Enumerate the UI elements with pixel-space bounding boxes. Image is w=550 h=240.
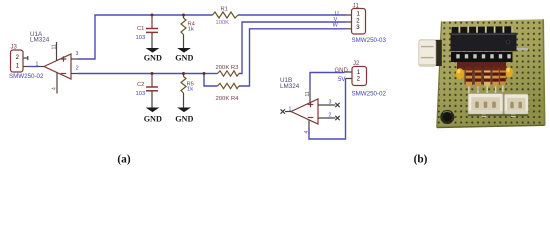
resistor 3 on board (484, 67, 490, 94)
connector J2 (352, 67, 367, 86)
svg-text:(a): (a) (117, 154, 130, 166)
svg-text:103: 103 (136, 91, 146, 97)
svg-text:SMW250-02: SMW250-02 (9, 73, 44, 80)
svg-text:GND: GND (175, 54, 193, 63)
connector shadow on board (468, 114, 528, 116)
J3 pin 2 stub with no-connect tick (23, 56, 28, 60)
capacitor C1 (146, 15, 158, 48)
resistor 5 on board (500, 67, 506, 93)
U1B pin 1 stub with no-connect X (281, 109, 292, 113)
svg-text:5V: 5V (338, 77, 345, 83)
U1B power pin 4 (bottom) (304, 120, 310, 134)
resistor R4 1k (181, 15, 186, 48)
svg-text:J1: J1 (353, 3, 360, 9)
U1B pin 3 stub with no-connect X (318, 103, 340, 107)
op-amp U1B (291, 99, 318, 124)
U1A pin 1 stub (38, 66, 44, 68)
svg-text:4: 4 (51, 87, 57, 90)
wire GND net to J2 pin 1 (310, 73, 345, 89)
wire net V (R3 right end up to J1 pin 2) (239, 22, 346, 74)
ground under C1 (144, 48, 162, 63)
ground under R4 (175, 48, 193, 63)
svg-text:C1: C1 (137, 26, 144, 32)
IC socket bottom contact row (451, 52, 513, 62)
wire R3 branch from junction (204, 73, 218, 75)
resistor 4 on board (492, 67, 498, 94)
ground under C2 (144, 108, 162, 124)
U1B pin 2 stub with no-connect X (318, 116, 340, 120)
svg-text:200K R4: 200K R4 (216, 96, 240, 102)
svg-text:LM324: LM324 (30, 36, 50, 43)
IC LM324 DIP-14 body (451, 33, 517, 52)
bottom connector left (3-pin) (468, 94, 503, 118)
svg-text:LM324: LM324 (280, 83, 300, 90)
wire top bus U (right segment from R1 to J1 pin 1) (238, 14, 346, 16)
svg-text:11: 11 (305, 91, 311, 96)
ground under R5 (175, 108, 193, 124)
wire net W (R4 right end up to J1 pin 3) (204, 29, 346, 86)
svg-text:GND: GND (335, 68, 349, 74)
resistor 1 on board (466, 67, 472, 94)
junction R4/top bus (182, 14, 185, 17)
resistor 2 on board (475, 67, 481, 94)
junction R5/bus2 (182, 72, 185, 75)
svg-text:J3: J3 (11, 45, 18, 51)
resistor bank shadow behind bodies (465, 66, 506, 85)
svg-text:2: 2 (329, 113, 332, 119)
op-amp U1A (44, 54, 71, 79)
svg-text:R1: R1 (221, 7, 228, 13)
yellow bead right (506, 67, 513, 77)
svg-text:3: 3 (76, 51, 79, 57)
wire top bus U (left segment with vertical to U1A pin 3) (78, 15, 213, 59)
svg-text:3: 3 (329, 99, 332, 105)
wire J3 pin1 to U1A output (28, 66, 38, 68)
svg-text:11: 11 (52, 44, 58, 49)
junction C2/bus2 (151, 72, 154, 75)
svg-text:J2: J2 (353, 61, 360, 67)
svg-text:2: 2 (76, 65, 79, 71)
svg-text:1k: 1k (188, 27, 194, 33)
resistor R4 200K (horizontal lower) (218, 83, 240, 88)
wire 5V net U1B pin4 to J2 pin 2 (309, 79, 346, 140)
svg-text:100K: 100K (216, 20, 230, 26)
svg-text:GND: GND (144, 54, 162, 63)
IC socket top contact row (451, 26, 513, 33)
connector J3 (11, 50, 24, 72)
left white connector (side view) (419, 40, 442, 66)
wire inverting bus (U1A pin 2 to R3/R4 junction) (78, 73, 204, 75)
svg-text:SMW250-03: SMW250-03 (352, 37, 387, 44)
svg-text:4: 4 (304, 131, 310, 134)
resistor R1 100K (horizontal) (213, 12, 239, 18)
svg-text:SMW250-02: SMW250-02 (352, 91, 387, 98)
resistor bank dark backing (457, 62, 506, 70)
svg-text:(b): (b) (414, 154, 428, 166)
yellow bead left (456, 68, 464, 79)
J3 pin 1 stub (23, 66, 28, 68)
mounting hole bottom-left (440, 110, 454, 124)
svg-text:GND: GND (144, 114, 162, 123)
svg-text:GND: GND (175, 114, 193, 123)
J2 pin stubs (345, 72, 353, 79)
U1A power pin 11 (top) (52, 42, 58, 61)
resistor R3 200K (horizontal) (218, 71, 240, 76)
bottom connector right (2-pin) (504, 94, 528, 117)
connector J1 (352, 9, 366, 35)
svg-text:103: 103 (136, 35, 146, 41)
junction C1/top bus (151, 14, 154, 17)
U1B power pin 11 (top) (305, 89, 311, 104)
U1A power pin 4 (bottom) (51, 73, 57, 94)
capacitor C2 (146, 74, 158, 108)
svg-text:1: 1 (289, 106, 292, 112)
perfboard PCB photo (437, 19, 545, 127)
IC bent pin sticking out right (517, 48, 529, 50)
U1A pin 2 stub (71, 73, 78, 75)
svg-text:C2: C2 (137, 82, 144, 88)
J1 pin stubs (346, 15, 352, 29)
junction R3-R4 node (203, 72, 206, 75)
svg-text:W: W (333, 23, 339, 29)
U1A pin 3 stub (71, 58, 78, 60)
svg-text:1k: 1k (187, 87, 193, 93)
resistor R5 1k (181, 74, 186, 108)
svg-text:200K R3: 200K R3 (216, 65, 240, 71)
